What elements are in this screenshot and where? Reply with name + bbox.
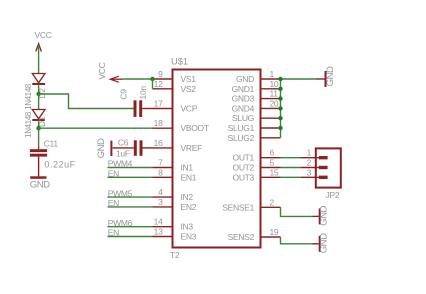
- svg-text:15: 15: [270, 167, 279, 177]
- svg-text:IN3: IN3: [181, 222, 194, 232]
- svg-text:3: 3: [158, 197, 163, 207]
- svg-text:OUT2: OUT2: [233, 163, 255, 173]
- pin OUT3 stub (pin 15): [261, 176, 281, 178]
- capacitor C11: [30, 147, 47, 177]
- pin VS1 stub (pin 9): [153, 78, 173, 80]
- svg-text:JP2: JP2: [326, 190, 340, 200]
- pin GND4 stub (pin 20): [261, 107, 281, 109]
- pin SLUG2 stub: [261, 137, 281, 139]
- svg-text:1N4148: 1N4148: [24, 111, 33, 138]
- supply symbol VCC top left: [36, 44, 42, 52]
- wire node B to C11: [38, 128, 40, 146]
- junction dot pin11: [278, 96, 282, 100]
- svg-text:1: 1: [270, 69, 275, 79]
- JP2 pin 1 pad: [319, 156, 328, 159]
- svg-text:7: 7: [158, 158, 163, 168]
- wire node A to C9: [39, 94, 134, 109]
- svg-text:GND: GND: [325, 66, 336, 86]
- ground symbol below C11: [30, 176, 46, 179]
- wire SENS2 to ground: [281, 237, 313, 244]
- junction dot node B: [36, 126, 40, 130]
- capacitor C6: [134, 140, 153, 156]
- junction dot SLUG1: [278, 126, 282, 130]
- svg-text:T2: T2: [170, 250, 180, 260]
- svg-text:OUT1: OUT1: [233, 153, 255, 163]
- wire D1 cathode to node B: [38, 120, 40, 128]
- pin IN2 stub (pin 4): [153, 196, 173, 198]
- svg-text:20: 20: [270, 98, 279, 108]
- svg-text:SLUG1: SLUG1: [228, 123, 255, 133]
- svg-text:3: 3: [307, 167, 312, 177]
- svg-text:2: 2: [270, 197, 275, 207]
- pin VS2 stub (pin 12): [153, 88, 173, 90]
- wire PWM4 to IN1: [108, 167, 153, 169]
- svg-text:1N4148: 1N4148: [24, 83, 33, 110]
- svg-text:16: 16: [154, 138, 163, 148]
- wire SENSE1 to ground: [281, 207, 313, 216]
- svg-text:GND: GND: [236, 74, 254, 84]
- pin GND1 stub (pin 10): [261, 88, 281, 90]
- svg-text:VS1: VS1: [181, 74, 197, 84]
- JP2 pin 1 lead: [301, 157, 319, 159]
- svg-text:SENS2: SENS2: [228, 232, 255, 242]
- svg-text:VS2: VS2: [181, 84, 197, 94]
- svg-text:IN2: IN2: [181, 192, 194, 202]
- svg-text:C9: C9: [118, 89, 128, 100]
- JP2 pin 3 lead: [301, 176, 319, 178]
- svg-text:GND: GND: [318, 233, 329, 253]
- ground symbol at C6: [111, 141, 133, 156]
- svg-text:12: 12: [154, 79, 163, 89]
- svg-text:11: 11: [270, 89, 279, 99]
- svg-text:0.22uF: 0.22uF: [44, 159, 75, 169]
- svg-text:10: 10: [270, 79, 279, 89]
- pin SLUG stub: [261, 117, 281, 119]
- pin EN2 stub (pin 3): [153, 206, 173, 208]
- supply symbol VCC at VS1: [110, 76, 122, 82]
- pin VREF stub (pin 16): [153, 147, 173, 149]
- svg-text:VBOOT: VBOOT: [181, 123, 209, 133]
- pin SLUG1 stub: [261, 127, 281, 129]
- ground symbol top right: [316, 71, 326, 87]
- svg-text:IN1: IN1: [181, 163, 194, 173]
- pin IN3 stub (pin 14): [153, 226, 173, 228]
- wire VS1 node to VS2 pin 12: [152, 79, 154, 89]
- svg-text:EN3: EN3: [181, 232, 197, 242]
- IC U1 body: [173, 70, 261, 248]
- connector JP2 body: [316, 148, 341, 187]
- pin GND3 stub (pin 11): [261, 98, 281, 100]
- wire EN to EN3: [108, 236, 153, 238]
- svg-text:GND: GND: [30, 180, 50, 191]
- svg-text:EN2: EN2: [181, 202, 197, 212]
- pin GND stub (pin 1): [261, 78, 281, 80]
- svg-text:1: 1: [307, 148, 312, 158]
- wire node B to VBOOT pin 18: [39, 127, 153, 129]
- wire D2 cathode to node A: [38, 84, 40, 94]
- junction dot SLUG: [278, 116, 282, 120]
- svg-text:VCC: VCC: [35, 30, 52, 40]
- svg-text:SLUG: SLUG: [232, 113, 254, 123]
- svg-text:GND: GND: [318, 206, 329, 226]
- svg-text:SENSE1: SENSE1: [222, 202, 254, 212]
- svg-text:18: 18: [154, 118, 163, 128]
- svg-text:17: 17: [154, 99, 163, 109]
- svg-text:C11: C11: [44, 139, 59, 149]
- pin SENS2 stub (pin 19): [261, 236, 281, 238]
- pin VBOOT stub (pin 18): [153, 127, 173, 129]
- svg-text:VREF: VREF: [181, 143, 203, 153]
- svg-text:GND: GND: [96, 138, 107, 158]
- wire EN to EN2: [108, 206, 153, 208]
- svg-text:1uF: 1uF: [116, 149, 130, 159]
- svg-text:GND3: GND3: [232, 94, 255, 104]
- junction dot VS1/VS2 node: [150, 77, 154, 81]
- wire PWM6 to IN3: [108, 226, 153, 228]
- wire GND bus vertical: [280, 79, 282, 138]
- wire EN to EN1: [108, 176, 153, 178]
- svg-text:19: 19: [270, 227, 279, 237]
- svg-text:C6: C6: [118, 138, 129, 148]
- svg-text:8: 8: [158, 167, 163, 177]
- diode D1: [32, 110, 45, 121]
- svg-text:VCP: VCP: [181, 104, 198, 114]
- JP2 pin 3 pad: [319, 176, 328, 179]
- wire PWM5 to IN2: [108, 196, 153, 198]
- svg-text:GND1: GND1: [232, 84, 255, 94]
- wire VCC to D2: [38, 45, 40, 74]
- wire VCC to pin 9: [123, 78, 153, 80]
- diode D2: [32, 74, 45, 85]
- wire GND to ground symbol: [281, 78, 317, 80]
- pin OUT2 stub (pin 5): [261, 167, 281, 169]
- junction dot pin10: [278, 87, 282, 91]
- ground symbol SENS2: [313, 236, 320, 252]
- svg-text:VCC: VCC: [97, 62, 107, 79]
- wire node A to D1: [38, 94, 40, 110]
- svg-text:2: 2: [307, 158, 312, 168]
- pin IN1 stub (pin 7): [153, 167, 173, 169]
- svg-text:EN1: EN1: [181, 172, 197, 182]
- JP2 pin 2 lead: [301, 167, 319, 169]
- pin OUT1 stub (pin 6): [261, 157, 281, 159]
- ground symbol SENSE1: [313, 208, 320, 224]
- svg-text:9: 9: [158, 69, 163, 79]
- wire OUT2 to JP2: [281, 167, 302, 169]
- wire OUT1 to JP2: [281, 157, 302, 159]
- junction dot pin20: [278, 106, 282, 110]
- svg-text:4: 4: [158, 187, 163, 197]
- svg-text:OUT3: OUT3: [233, 172, 255, 182]
- junction dot pin1: [278, 77, 282, 81]
- svg-text:5: 5: [270, 158, 275, 168]
- svg-text:10n: 10n: [138, 86, 148, 100]
- svg-text:U$1: U$1: [171, 57, 188, 67]
- capacitor C9: [134, 100, 153, 117]
- pin VCP stub (pin 17): [153, 108, 173, 110]
- svg-text:SLUG2: SLUG2: [228, 133, 255, 143]
- svg-text:6: 6: [270, 148, 275, 158]
- junction dot node A: [36, 92, 40, 96]
- svg-text:14: 14: [154, 217, 163, 227]
- svg-text:GND4: GND4: [232, 103, 255, 113]
- pin SENSE1 stub (pin 2): [261, 206, 281, 208]
- svg-text:13: 13: [154, 227, 163, 237]
- JP2 pin 2 pad: [319, 166, 328, 169]
- pin EN1 stub (pin 8): [153, 176, 173, 178]
- wire OUT3 to JP2: [281, 176, 302, 178]
- pin EN3 stub (pin 13): [153, 236, 173, 238]
